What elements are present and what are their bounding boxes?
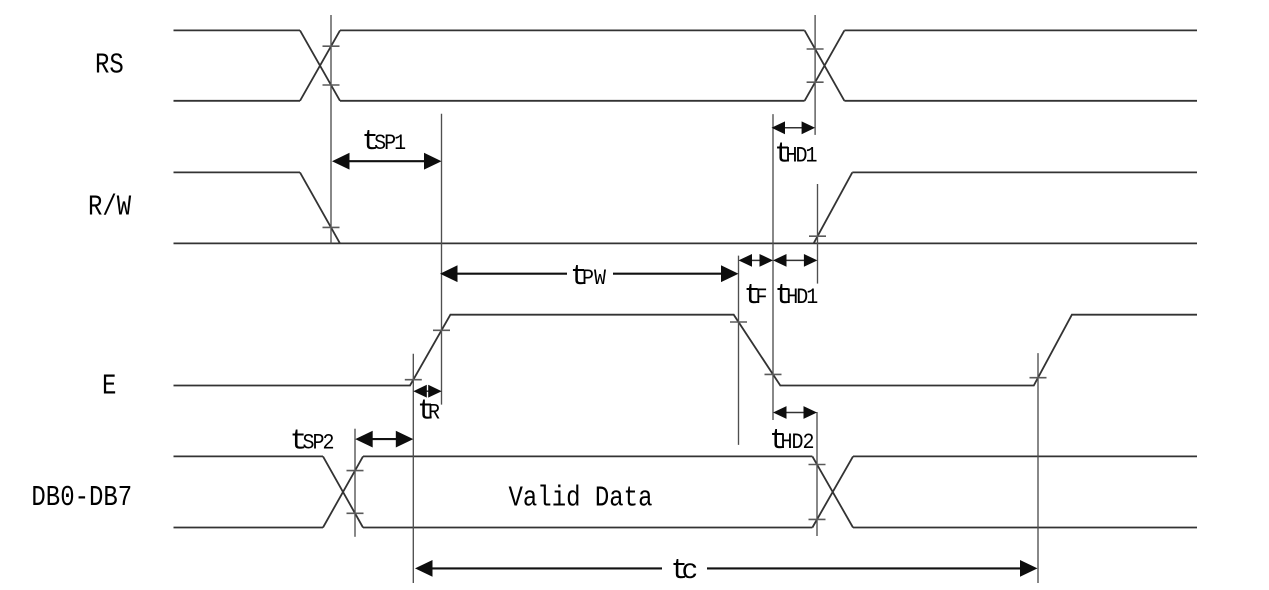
svg-text:SP1: SP1: [374, 132, 405, 156]
label tSP2: [290, 424, 334, 457]
label tHD1 lower: [775, 279, 818, 312]
tick RS crossover 1 lower: [323, 84, 340, 86]
wire DB top rail middle: [363, 455, 812, 457]
wire RS top rail left: [174, 29, 301, 31]
svg-text:DB0-DB7: DB0-DB7: [31, 481, 132, 514]
label E: [102, 370, 116, 403]
svg-text:R: R: [428, 402, 440, 426]
svg-text:R/W: R/W: [88, 190, 131, 223]
timing line L6b at R/W hold: [817, 184, 819, 284]
dimension arrow tF: [739, 254, 774, 267]
wire R/W falling edge: [300, 172, 340, 243]
wire DB top rail left: [174, 455, 324, 457]
wire DB top rail right: [853, 455, 1197, 457]
timing line L6c at DB hold: [816, 412, 818, 536]
timing line L3 at E rise: [412, 354, 414, 583]
label Valid Data: [509, 482, 653, 515]
wire RS bottom rail right: [844, 100, 1197, 102]
wire R/W low rail: [174, 242, 1198, 244]
wire R/W high rail right: [852, 171, 1197, 173]
timing line L6a at RS hold: [814, 15, 816, 135]
dimension arrow tSP1: [332, 153, 442, 170]
svg-text:HD1: HD1: [786, 145, 817, 169]
tick DB crossover 1 lower: [347, 512, 364, 514]
tick E fall at L4: [730, 321, 747, 323]
wire DB bottom rail left: [174, 527, 324, 529]
svg-text:HD1: HD1: [786, 286, 817, 310]
tick RS crossover 2 upper: [807, 48, 824, 50]
RS crossover 1: [300, 30, 340, 100]
svg-text:SP2: SP2: [303, 432, 334, 456]
timing line L2 at R/W setup point: [441, 114, 443, 405]
timing line L4 at E fall start: [738, 256, 740, 445]
wire E waveform: [174, 315, 1198, 386]
tick R/W rising edge: [809, 235, 826, 237]
label DB0-DB7: [31, 481, 132, 514]
dimension arrow tHD1 lower: [773, 254, 817, 267]
tick R/W falling edge: [323, 226, 340, 228]
label RS: [95, 49, 124, 82]
label tHD2: [769, 424, 814, 457]
label tc: [671, 554, 699, 587]
wire RS top rail middle: [340, 29, 805, 31]
wire DB bottom rail middle: [363, 527, 812, 529]
svg-text:PW: PW: [582, 267, 606, 291]
tick E second rise at L8: [1030, 377, 1047, 379]
wire RS top rail right: [844, 29, 1197, 31]
wire DB bottom rail right: [853, 527, 1197, 529]
wire R/W rising edge: [814, 172, 853, 243]
label tR: [417, 394, 440, 427]
label tPW: [570, 260, 606, 293]
label R/W: [88, 190, 131, 223]
svg-text:c: c: [682, 556, 699, 587]
dimension arrow tSP2: [355, 431, 413, 448]
svg-text:Valid Data: Valid Data: [509, 482, 653, 515]
tick DB crossover 2 lower: [809, 518, 826, 520]
timing line L1 at RS change: [330, 15, 332, 244]
wire R/W high rail left: [174, 171, 301, 173]
tick RS crossover 2 lower: [807, 81, 824, 83]
tick DB crossover 2 upper: [809, 464, 826, 466]
dimension arrow tHD2: [773, 406, 817, 419]
DB crossover 1: [323, 456, 363, 527]
timing line L7 at DB change: [354, 429, 356, 537]
timing line L5 at E fall end: [772, 114, 774, 420]
svg-text:RS: RS: [95, 49, 124, 82]
dimension arrow tPW: [440, 265, 739, 282]
label tHD1 upper: [774, 137, 817, 170]
dimension arrow tR: [413, 385, 441, 398]
RS crossover 2: [805, 30, 845, 100]
dimension arrow tc: [415, 560, 1038, 577]
timing line L8 at E second rise: [1037, 353, 1039, 583]
tick RS crossover 1 upper: [323, 45, 340, 47]
tick DB crossover 1 upper: [347, 470, 364, 472]
wire RS bottom rail left: [174, 100, 301, 102]
svg-text:F: F: [756, 286, 767, 310]
tick E fall at L5: [765, 373, 782, 375]
svg-text:HD2: HD2: [781, 431, 814, 455]
label tSP1: [362, 125, 406, 158]
svg-text:E: E: [102, 370, 116, 403]
DB crossover 2: [812, 456, 853, 527]
dimension arrow tHD1 upper: [772, 121, 816, 134]
wire RS bottom rail middle: [340, 100, 805, 102]
label tF: [744, 279, 767, 312]
tick E rise at L3: [405, 379, 422, 381]
tick E rise at L2: [433, 329, 450, 331]
